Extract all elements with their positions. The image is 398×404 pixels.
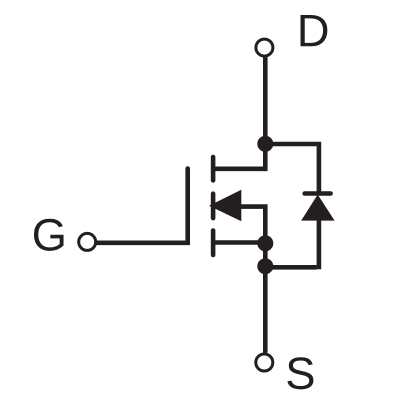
wire: source node to S terminal: [263, 243, 268, 352]
wire: D terminal to drain node: [263, 57, 268, 171]
label S: [287, 357, 313, 389]
junction: source node (lower): [257, 258, 273, 274]
body diode cathode bar: [305, 191, 331, 196]
wire: source lead (bottom channel bar to source node): [214, 240, 265, 245]
terminal G (open circle): [79, 233, 96, 250]
wire: G terminal to gate, and gate line of MOSFET: [97, 169, 188, 243]
wire: diode anode to lower source node branch: [317, 216, 322, 269]
MOSFET channel bar (source segment): [211, 231, 216, 256]
junction: drain node: [257, 136, 273, 152]
MOSFET body arrow (points left to channel): [209, 190, 241, 221]
MOSFET channel bar (body segment): [211, 194, 216, 218]
junction: source node (upper): [257, 235, 273, 251]
MOSFET channel bar (drain segment): [211, 157, 216, 180]
label G: [34, 219, 64, 251]
label D: [301, 15, 328, 46]
wire: drain branch to body diode cathode: [317, 142, 322, 194]
terminal S (open circle): [256, 354, 273, 371]
body diode anode triangle: [301, 195, 334, 221]
wire: body lead with corner down to source node: [241, 207, 265, 244]
wire: drain node to diode cathode branch: [265, 142, 316, 147]
wire: drain lead (top channel bar to vertical): [214, 167, 265, 172]
wire: lower source node to diode branch: [265, 265, 316, 270]
terminal D (open circle): [256, 39, 273, 56]
